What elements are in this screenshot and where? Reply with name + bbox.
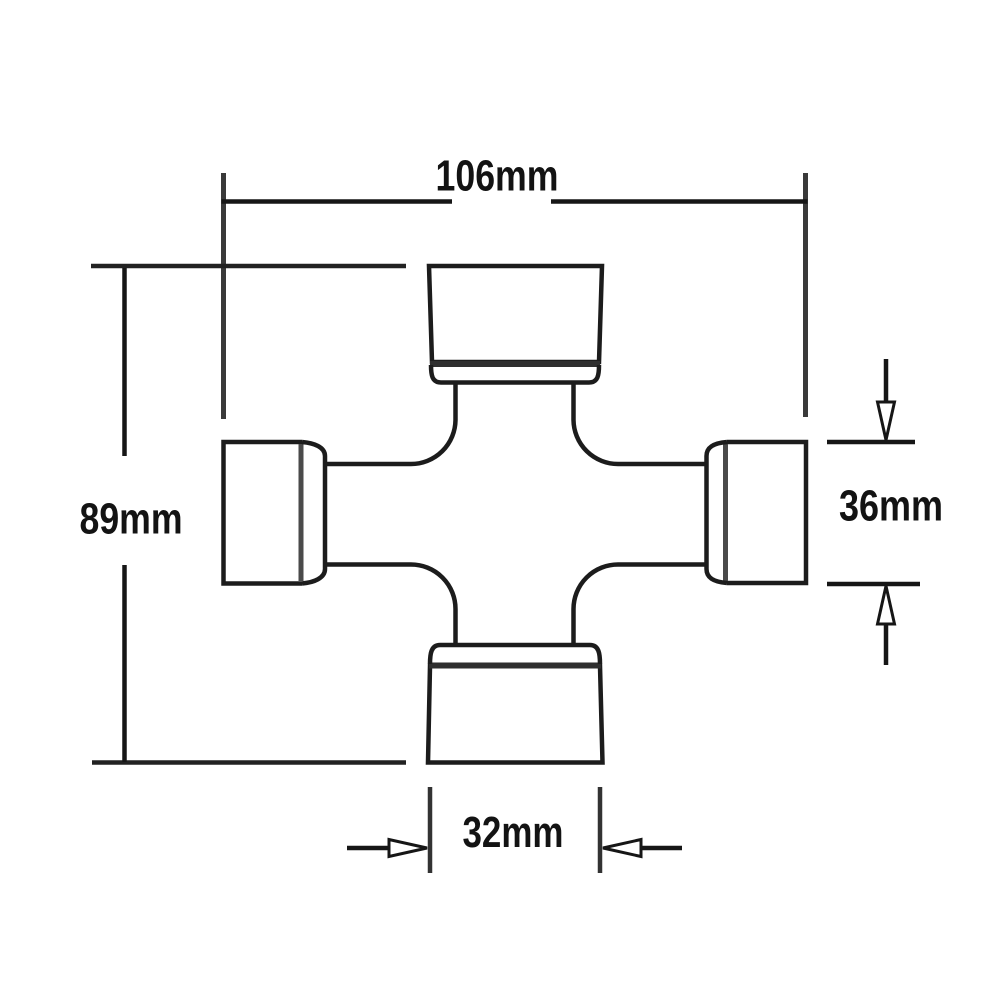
cross arm top-right: top arm right side, fillet, right arm top side [574,383,707,465]
svg-text:36mm: 36mm [839,482,943,531]
bottom cup mouth line [429,663,601,669]
bottom bearing cup body [428,666,603,763]
left cup mouth line [299,444,304,581]
left bearing cup body [224,442,303,584]
32mm left arrow shaft [347,846,389,851]
svg-text:32mm: 32mm [463,808,564,857]
right cup collar [707,442,728,583]
cross arm top-left: top arm left side, fillet, left arm top side [325,383,456,465]
right cup mouth line [723,444,728,581]
right bearing cup body [727,442,806,583]
32mm left extension line [428,787,433,873]
32mm right arrowhead [603,840,641,857]
89mm top extension line [91,264,406,269]
36mm top arrow shaft [884,359,889,402]
36mm bottom arrowhead [878,586,895,624]
89mm bottom extension line [92,760,406,765]
89mm dimension line top segment [122,268,127,456]
36mm top arrowhead [878,402,895,440]
36mm bottom tick line [827,582,920,587]
106mm dimension line right segment [551,199,808,204]
32mm right extension line [598,787,603,873]
bottom cup collar [430,645,600,664]
cross arm bottom-left: left arm bottom side, fillet, bottom arm left side [325,565,456,646]
32mm left arrowhead [389,840,427,857]
left cup collar [302,442,325,584]
36mm bottom arrow shaft [884,623,889,665]
36mm top tick line [827,440,915,445]
svg-text:89mm: 89mm [80,495,183,544]
cross arm bottom-right: right arm bottom side, fillet, bottom arm right side [574,565,707,646]
89mm dimension line bottom segment [122,565,127,762]
32mm right arrow shaft [642,846,682,851]
top bearing cup body [429,266,602,362]
106mm dimension line left segment [222,199,453,204]
top cup mouth line [430,361,600,367]
svg-text:106mm: 106mm [436,152,559,201]
106mm left extension line [221,173,226,419]
top cup collar [431,365,599,383]
106mm right extension line [803,173,808,417]
